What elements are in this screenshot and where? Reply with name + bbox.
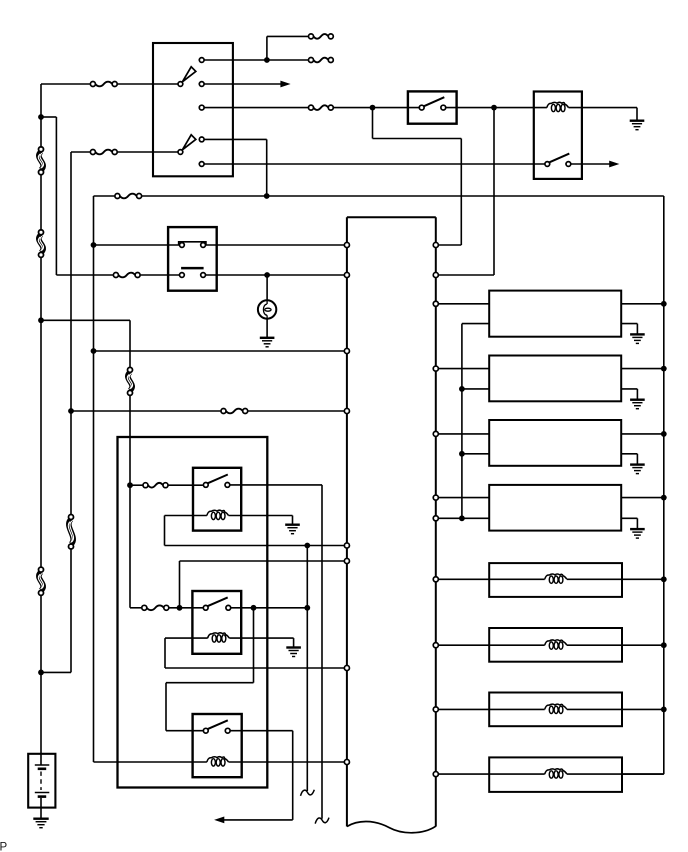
wire SW2 to relay R1 coil	[446, 107, 547, 109]
solenoid L3 box	[489, 628, 622, 662]
relay R5 box	[193, 714, 242, 777]
switch SW2 contact left	[419, 105, 424, 110]
wire R3 coil left to ECU	[165, 516, 345, 546]
ECU pin left 7	[344, 665, 349, 670]
node junction x93-y245	[91, 242, 97, 248]
solenoid L5 box	[489, 757, 622, 792]
node junction x179-y608	[177, 605, 183, 611]
ground G7	[630, 465, 645, 474]
node junction bus-U2	[661, 366, 667, 372]
wire ECU to L4	[438, 708, 544, 710]
ground G3	[285, 525, 300, 534]
ECU pin left 3	[344, 348, 349, 353]
wire R3 coil right to ground	[229, 516, 293, 525]
fuse F6	[309, 34, 334, 39]
battery B1 box	[28, 754, 55, 808]
wire U4 top to bus	[621, 497, 664, 499]
wire ECU to L3	[438, 644, 544, 646]
wire battery feed vertical x=41	[40, 84, 42, 765]
ECU pin right 4	[433, 366, 438, 371]
wire battery to ground	[40, 798, 42, 818]
ignition switch SW1 box	[153, 43, 233, 176]
ground G2	[260, 338, 275, 347]
wire x494 to ECU pin	[438, 108, 494, 275]
wire break symbol	[315, 818, 329, 824]
wire L5 to bus	[567, 773, 664, 775]
wire ECU to U1 top	[438, 303, 489, 305]
solenoid L2 box	[489, 563, 622, 597]
wire x372 link to ECU pin	[373, 108, 462, 245]
relay R5 contact right	[225, 728, 230, 733]
solenoid L5 coil	[545, 769, 567, 778]
actuator U1 box	[489, 291, 621, 337]
ECU box	[347, 217, 436, 833]
ECU pin right 2	[433, 272, 438, 277]
node junction x462-U3	[459, 451, 465, 457]
switch SW1 pivot upper	[178, 82, 183, 87]
solenoid L2 coil	[545, 574, 567, 583]
wire lamp to ground	[266, 319, 268, 338]
relay R5 contact left	[203, 728, 208, 733]
relay R2 contact b1	[180, 273, 185, 278]
wire R5 switch feed	[166, 608, 254, 731]
fusible link FL5	[127, 367, 132, 395]
ECU pin right 11	[433, 772, 438, 777]
wire y=245 to relay R2	[94, 244, 180, 246]
ECU pin right 5	[433, 431, 438, 436]
node junction x41-y672	[38, 670, 44, 676]
wire R1 output arrow	[571, 161, 620, 168]
terminal SW1-3	[199, 105, 204, 110]
fusible link FL1	[38, 147, 43, 175]
wire x=307 bus	[306, 546, 308, 792]
node junction x372	[370, 105, 376, 111]
wire L2 to bus	[567, 578, 664, 580]
fuse F8	[309, 105, 334, 110]
wire to fuse F7	[267, 59, 309, 61]
wire L4 to bus	[567, 708, 664, 710]
wire U1 top to bus	[621, 303, 664, 305]
actuator U3 box	[489, 420, 621, 466]
relay R1 contact right	[566, 162, 571, 167]
wire R5 coil row y=762	[94, 761, 345, 763]
relay R3 switch lever	[208, 475, 228, 484]
ECU pin right 9	[433, 643, 438, 648]
node junction x494	[491, 105, 497, 111]
terminal SW1-2	[199, 82, 204, 87]
ground G6	[630, 400, 645, 409]
ground G1	[630, 121, 645, 130]
node junction x41-y320	[38, 317, 44, 323]
wire F8 to switch SW2	[333, 107, 419, 109]
wire x=462 bus	[461, 324, 463, 519]
node junction bus-L4	[661, 707, 667, 713]
wire R5 switch output arrow	[214, 731, 293, 824]
node junction x462-U2	[459, 386, 465, 392]
fusible link FL2	[38, 230, 43, 258]
wire x=130 bus	[129, 320, 131, 608]
fuse F7	[309, 58, 334, 63]
wire L3 to bus	[567, 644, 664, 646]
relay R2 NO contact bar	[181, 267, 204, 270]
fuse F5	[221, 409, 248, 414]
solenoid L4 coil	[545, 704, 567, 713]
wire y=411 to ECU	[71, 410, 345, 412]
wire ECU to L2	[438, 578, 544, 580]
switch SW1 contact lever upper	[182, 67, 195, 82]
switch SW2 contact right	[441, 105, 446, 110]
relay R2 contact a2	[201, 243, 206, 248]
terminal SW1-5	[199, 162, 204, 167]
ECU pin left 6	[344, 558, 349, 563]
ECU pin left 1	[344, 242, 349, 247]
node junction y196	[264, 193, 270, 199]
wire from SW1-3	[204, 107, 309, 109]
wire lamp drop	[266, 275, 268, 300]
wire from SW1-5 to relay R1 switch	[204, 163, 545, 165]
wire R4 switch output	[231, 607, 308, 609]
relay R4 switch lever	[208, 597, 228, 606]
relay R2 NC contact bar	[179, 242, 206, 245]
relay R5 switch lever	[208, 720, 228, 729]
ECU pin right 10	[433, 707, 438, 712]
ground G4	[286, 648, 301, 657]
node junction x462-U4	[459, 515, 465, 521]
wire ECU to U3 top	[438, 433, 489, 435]
wire U2 top to bus	[621, 368, 664, 370]
node junction x307-y608	[304, 605, 310, 611]
wire from SW1-4	[204, 139, 267, 196]
wire fuse F4 row y=275	[56, 274, 179, 276]
fusible link FL3	[38, 567, 43, 595]
actuator U4 box	[489, 485, 621, 531]
ECU pin right 8	[433, 577, 438, 582]
wire fuse F2 row y=152	[71, 151, 178, 153]
relay R3 contact left	[203, 483, 208, 488]
wire ECU to U4 low	[438, 517, 489, 519]
wire y=320 branch	[41, 319, 130, 321]
node junction bus-U3	[661, 431, 667, 437]
wire bus to U2 low	[462, 388, 489, 390]
wire U1 to ground	[621, 324, 637, 334]
node junction bus-U4	[661, 495, 667, 501]
ground G8	[630, 529, 645, 538]
relay R2 contact a1	[180, 243, 185, 248]
wire fuse F10 row y=608	[130, 607, 203, 609]
relay R3 box	[193, 468, 241, 531]
wire x=93.5 bus	[93, 196, 95, 762]
wire ECU to U4 top	[438, 497, 489, 499]
ECU pin right 7	[433, 516, 438, 521]
relay R1 contact left	[545, 162, 550, 167]
label P	[0, 842, 8, 852]
wire fuse F3 row y=196	[94, 195, 116, 197]
lamp L1	[258, 300, 276, 318]
fuse F4	[113, 273, 140, 278]
relay R3 coil	[207, 510, 229, 519]
node junction bus-L2	[661, 576, 667, 582]
wire ECU to U2 top	[438, 368, 489, 370]
relay R2 box	[168, 227, 217, 291]
wire fuse F1 row y=84	[41, 83, 178, 85]
relay R4 coil	[208, 633, 230, 642]
terminal SW1-4	[199, 137, 204, 142]
wire U4 to ground	[621, 518, 637, 528]
relay R3 contact right	[225, 483, 230, 488]
fuse F10	[142, 605, 169, 610]
wire x=71 bus	[41, 152, 71, 672]
switch SW1 pivot lower	[178, 150, 183, 155]
node junction x253-y608	[251, 605, 257, 611]
actuator U2 box	[489, 356, 621, 402]
solenoid L4 box	[489, 693, 622, 727]
wire fuse F9 row y=485	[130, 484, 203, 486]
ECU pin right 1	[433, 242, 438, 247]
relay R4 contact right	[226, 605, 231, 610]
wire y=561 to ECU	[180, 561, 345, 608]
relay R4 box	[192, 591, 241, 654]
relay R1 switch lever	[549, 154, 569, 163]
wire R1 coil to ground	[569, 108, 638, 121]
relay R2 contact b2	[201, 273, 206, 278]
solenoid L3 coil	[545, 640, 567, 649]
wire bus to U3 low	[462, 453, 489, 455]
wire U3 to ground	[621, 454, 637, 464]
wire R4 coil left to ECU	[165, 638, 345, 668]
wire y=196 to right bus	[142, 195, 664, 197]
switch SW2 box	[408, 91, 457, 123]
ECU pin left 4	[344, 408, 349, 413]
ECU pin left 5	[344, 543, 349, 548]
terminal SW1-1	[199, 58, 204, 63]
wire U2 to ground	[621, 389, 637, 399]
node junction x130-y485	[127, 482, 133, 488]
ground G5	[630, 334, 645, 343]
wire R3 switch output	[230, 485, 322, 819]
wire U3 top to bus	[621, 433, 664, 435]
wire y=351 to ECU	[94, 350, 345, 352]
wire right bus x=664	[622, 196, 664, 774]
node junction y60	[264, 57, 270, 63]
node junction x71-y411	[68, 408, 74, 414]
wire R4 coil right to ground	[229, 638, 293, 647]
node junction x93-y351	[91, 348, 97, 354]
node junction bus-L3	[661, 642, 667, 648]
fuse F1	[90, 82, 117, 87]
fuse F3	[115, 194, 142, 199]
relay R5 coil	[207, 757, 229, 766]
switch SW1 contact lever lower	[182, 135, 195, 150]
ECU pin left 2	[344, 272, 349, 277]
fusible link FL4	[68, 515, 73, 550]
wire from SW1-1	[204, 59, 267, 61]
node junction lamp tap	[264, 272, 270, 278]
wire riser to fuse F6	[267, 36, 309, 60]
wire R2 to ECU pin y275	[206, 274, 345, 276]
switch SW2 lever	[424, 97, 445, 106]
ECU pin right 6	[433, 495, 438, 500]
node junction bus-U1	[661, 301, 667, 307]
wire jog to x=56 bus	[41, 117, 56, 275]
ECU pin right 3	[433, 301, 438, 306]
relay R1 box	[534, 92, 582, 179]
wire break symbol 2	[301, 790, 315, 796]
wire from SW1-2 with arrow	[204, 81, 291, 88]
junction block box	[118, 437, 268, 788]
relay R1 coil	[547, 102, 569, 111]
ground G9	[33, 819, 48, 828]
wire bus to U1 low	[462, 323, 489, 325]
battery B1 cells	[35, 765, 50, 797]
wire R2 to ECU pin y245	[206, 244, 345, 246]
node junction x307-y545	[304, 543, 310, 549]
relay R4 contact left	[203, 605, 208, 610]
fuse F2	[90, 150, 117, 155]
svg-text:P: P	[0, 842, 8, 852]
node junction x41-y117	[38, 114, 44, 120]
fuse F9	[143, 483, 168, 488]
wire ECU to L5	[438, 773, 544, 775]
ECU pin left 8	[344, 759, 349, 764]
